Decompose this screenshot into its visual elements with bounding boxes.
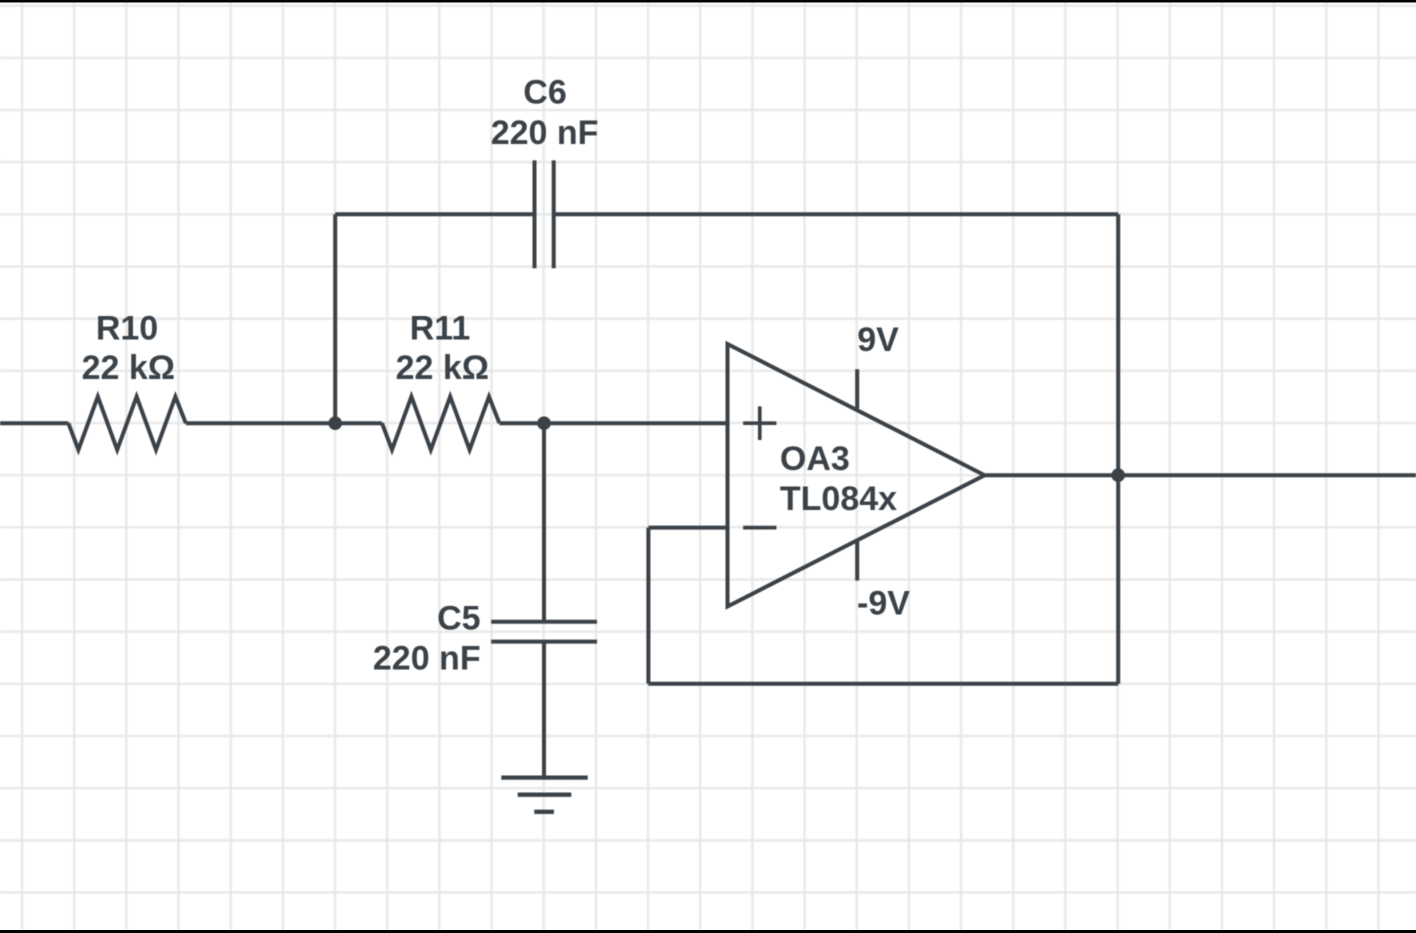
wire node B down to C5 xyxy=(542,423,546,622)
wire node B to op-amp xyxy=(544,421,728,425)
resistor R11 xyxy=(335,397,544,450)
op-amp minus input symbol xyxy=(743,526,776,530)
output node junction xyxy=(1111,468,1125,482)
wire input left xyxy=(0,421,68,425)
svg-text:C6: C6 xyxy=(523,74,566,112)
wire to minus input xyxy=(648,526,727,530)
resistor R10 xyxy=(68,397,185,450)
ground xyxy=(501,778,587,812)
svg-text:TL084x: TL084x xyxy=(780,480,897,518)
wire feedback top right xyxy=(554,212,1118,216)
9V power stub xyxy=(855,369,859,408)
svg-text:22 kΩ: 22 kΩ xyxy=(396,349,489,387)
node B junction xyxy=(537,416,551,430)
wire output xyxy=(985,473,1416,477)
svg-text:R11: R11 xyxy=(410,310,471,348)
op-amp U1 OA3 triangle xyxy=(728,344,985,607)
node A junction xyxy=(328,416,342,430)
svg-text:OA3: OA3 xyxy=(780,440,850,478)
wire feedback top left xyxy=(335,212,534,216)
svg-text:220 nF: 220 nF xyxy=(373,640,481,678)
top border bar xyxy=(0,0,1416,3)
wire node A up to feedback xyxy=(333,214,337,423)
wire feedback left vertical xyxy=(646,528,650,684)
svg-text:220 nF: 220 nF xyxy=(491,114,599,152)
wire feedback bottom xyxy=(648,682,1118,686)
svg-text:-9V: -9V xyxy=(857,585,910,623)
op-amp plus input symbol xyxy=(743,406,776,440)
capacitor C6 xyxy=(535,160,554,268)
svg-text:22 kΩ: 22 kΩ xyxy=(82,349,175,387)
svg-text:C5: C5 xyxy=(437,600,480,638)
capacitor C5 xyxy=(491,622,597,642)
svg-text:R10: R10 xyxy=(96,310,158,348)
wire feedback right vertical xyxy=(1116,214,1120,684)
wire C5 to ground xyxy=(542,642,546,778)
svg-text:9V: 9V xyxy=(857,321,899,359)
-9V power stub xyxy=(855,541,859,581)
bottom border bar xyxy=(0,930,1416,933)
wire R10 to node A xyxy=(186,421,335,425)
